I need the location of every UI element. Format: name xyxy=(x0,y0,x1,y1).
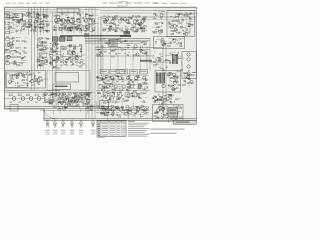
top small box xyxy=(118,2,127,6)
input section parts xyxy=(6,14,26,34)
wire center bus 2 xyxy=(95,49,150,51)
speaker row resistors xyxy=(96,106,149,113)
rectifier parts xyxy=(168,71,180,90)
meter M1 xyxy=(103,77,113,84)
phono amp parts xyxy=(8,71,49,86)
detector parts xyxy=(152,11,166,35)
input jacks J1-J5 xyxy=(6,12,14,34)
IF amp parts xyxy=(168,12,197,35)
power amp parts xyxy=(96,75,148,106)
wire mid bus d xyxy=(85,42,140,44)
wire center bus xyxy=(95,47,162,49)
wire power amp row 4 xyxy=(99,88,149,90)
wire double vert a xyxy=(100,17,102,74)
block shield box xyxy=(55,73,79,83)
wire top-right bus 4 xyxy=(100,12,193,14)
wire vert left c xyxy=(34,7,36,90)
control section parts xyxy=(6,37,29,67)
relay contacts xyxy=(170,110,177,114)
wire vert tuner c xyxy=(73,10,75,33)
wire left output bus xyxy=(5,90,60,92)
block bottom right box xyxy=(153,105,184,122)
paper background xyxy=(0,0,200,139)
wire vert left g xyxy=(46,7,48,33)
wire vert far right xyxy=(189,17,191,36)
wire double vert b xyxy=(101,17,103,74)
wire vert left a xyxy=(28,7,30,35)
block outer shield xyxy=(47,71,90,91)
block meter box xyxy=(100,101,109,109)
AF board resistor rows xyxy=(50,60,83,66)
wire center vertical drops xyxy=(103,46,147,74)
legend transistor pinouts xyxy=(45,120,96,135)
wire bottom bus 3 xyxy=(40,110,150,112)
tone stage parts xyxy=(61,44,85,70)
wire vert tuner d xyxy=(79,10,81,33)
wire bottom rail xyxy=(44,118,196,120)
wire mid bus c xyxy=(85,41,148,43)
wire bottom bus 2 xyxy=(5,108,112,110)
regulator parts xyxy=(182,70,196,86)
wire output row xyxy=(5,98,44,100)
driver board row 1 xyxy=(44,93,89,96)
wire right top bus xyxy=(100,16,196,18)
block AM tuner box xyxy=(57,8,79,12)
wire top bus 3 xyxy=(28,12,84,14)
title text line xyxy=(6,2,50,5)
capacitor hatch top xyxy=(116,70,125,74)
wire mid bus b xyxy=(85,39,150,41)
wire bottom center row xyxy=(100,109,149,111)
IF transistors Q7-Q12 xyxy=(104,20,144,23)
wire power amp row 2 xyxy=(99,79,149,81)
title block xyxy=(174,120,197,124)
power amp transistors Q26-Q30 xyxy=(106,85,141,88)
schematic sheet area xyxy=(4,7,196,120)
wire vert right b xyxy=(162,44,164,108)
wire vert center e xyxy=(97,17,99,110)
power amp transistors Q20-Q25 xyxy=(102,76,145,79)
wire power amp row 1 xyxy=(99,75,149,77)
wire vert right a xyxy=(149,38,151,70)
wire top-right bus 3 xyxy=(100,10,196,12)
switch bank SW1-SW5 xyxy=(6,38,14,64)
schematic border frame xyxy=(4,7,196,120)
IC1 xyxy=(53,37,59,41)
AF amp dense parts xyxy=(49,43,63,70)
wire center bus 3 xyxy=(95,55,152,57)
power cord parts xyxy=(154,105,182,123)
wire vert mid b xyxy=(55,12,57,104)
heater circuit parts xyxy=(53,104,95,115)
filter parts xyxy=(152,94,180,108)
scan texture xyxy=(5,7,197,120)
wire vert right c xyxy=(165,44,167,108)
meter M1 needle xyxy=(106,79,111,83)
IC2 xyxy=(60,37,66,41)
relay RY1 xyxy=(168,108,178,118)
top right label text xyxy=(154,2,187,5)
AGC parts xyxy=(155,38,185,48)
tuner label text xyxy=(55,86,68,87)
wire top bus 1 xyxy=(5,9,100,11)
top center label text xyxy=(102,2,158,5)
block IF amp box xyxy=(167,11,195,37)
switch row S1-S5 xyxy=(100,69,147,74)
wire corner arc xyxy=(44,109,58,119)
wire top bus 2 xyxy=(5,10,84,12)
speaker drive transistors Q31-Q36 xyxy=(102,108,147,111)
block output transformer box xyxy=(182,52,197,79)
switch matrix parts xyxy=(96,38,149,60)
transformer T1 xyxy=(173,54,178,64)
connector CN1 hatched xyxy=(109,40,118,47)
wire vert left e xyxy=(40,7,42,35)
wire power amp row 3 xyxy=(99,84,149,86)
wire bottom bus 1 xyxy=(5,106,112,108)
wire vert left f xyxy=(43,7,45,33)
wire right top bus 2 xyxy=(112,18,196,20)
bus junction blob xyxy=(84,33,89,37)
output bias resistors xyxy=(9,94,38,103)
footer text line 1 xyxy=(151,129,185,130)
wire vert tuner b xyxy=(67,10,69,33)
front-end parts xyxy=(25,12,52,35)
block power supply box xyxy=(155,71,181,93)
power transformer T2 xyxy=(157,73,171,88)
driver transistors Q10-Q13 xyxy=(187,53,190,75)
wire front-end link xyxy=(22,14,50,16)
wire mid bus a xyxy=(85,38,150,40)
IF section parts xyxy=(103,15,148,33)
tuner transistors Q1-Q6 xyxy=(54,19,95,23)
wire power amp verticals xyxy=(106,74,146,90)
wire vert center c xyxy=(91,7,93,118)
wire vert center d xyxy=(94,7,96,118)
wire vert tuner a xyxy=(61,10,63,33)
wire vert left b xyxy=(31,7,33,90)
output transistors Q14-Q17 xyxy=(12,97,41,101)
legend notes text xyxy=(128,121,150,137)
electrolytic capacitors C40-C44 xyxy=(103,93,137,98)
wire vert center a xyxy=(85,7,87,118)
bias ladder parts xyxy=(37,38,49,70)
driver board row 2 xyxy=(45,100,90,103)
block phono inner box xyxy=(7,72,28,87)
wire mid dark bus xyxy=(60,35,131,37)
IC3 xyxy=(67,37,72,41)
output stage parts xyxy=(43,93,96,108)
block right upper box xyxy=(154,37,185,49)
wire power amp bottom xyxy=(96,90,150,92)
block FM front-end box xyxy=(13,13,23,20)
legend table xyxy=(97,121,126,138)
wire vert center b xyxy=(88,7,90,118)
AM/FM tuner parts xyxy=(53,14,98,36)
junction blob B xyxy=(124,31,131,35)
wire vert mid a xyxy=(52,12,54,104)
tuner bias resistors xyxy=(54,28,95,31)
footer text line 2 xyxy=(151,133,177,134)
block left amp box xyxy=(6,71,46,89)
node dark C xyxy=(140,60,152,62)
wire bottom center row 2 xyxy=(100,114,149,116)
block bottom small box xyxy=(10,105,18,112)
speaker network parts xyxy=(100,106,147,122)
bias ladder resistors xyxy=(39,38,47,66)
wire left output bus 2 xyxy=(5,91,92,93)
IF resistors xyxy=(103,28,145,31)
block tuner label box xyxy=(53,84,71,90)
junction blob A xyxy=(120,35,131,37)
wire vert left d xyxy=(37,7,39,68)
driver stage parts xyxy=(152,52,183,77)
block tone sub-box xyxy=(61,47,82,57)
wire right link xyxy=(150,61,174,63)
wire front-end link 2 xyxy=(24,24,50,26)
